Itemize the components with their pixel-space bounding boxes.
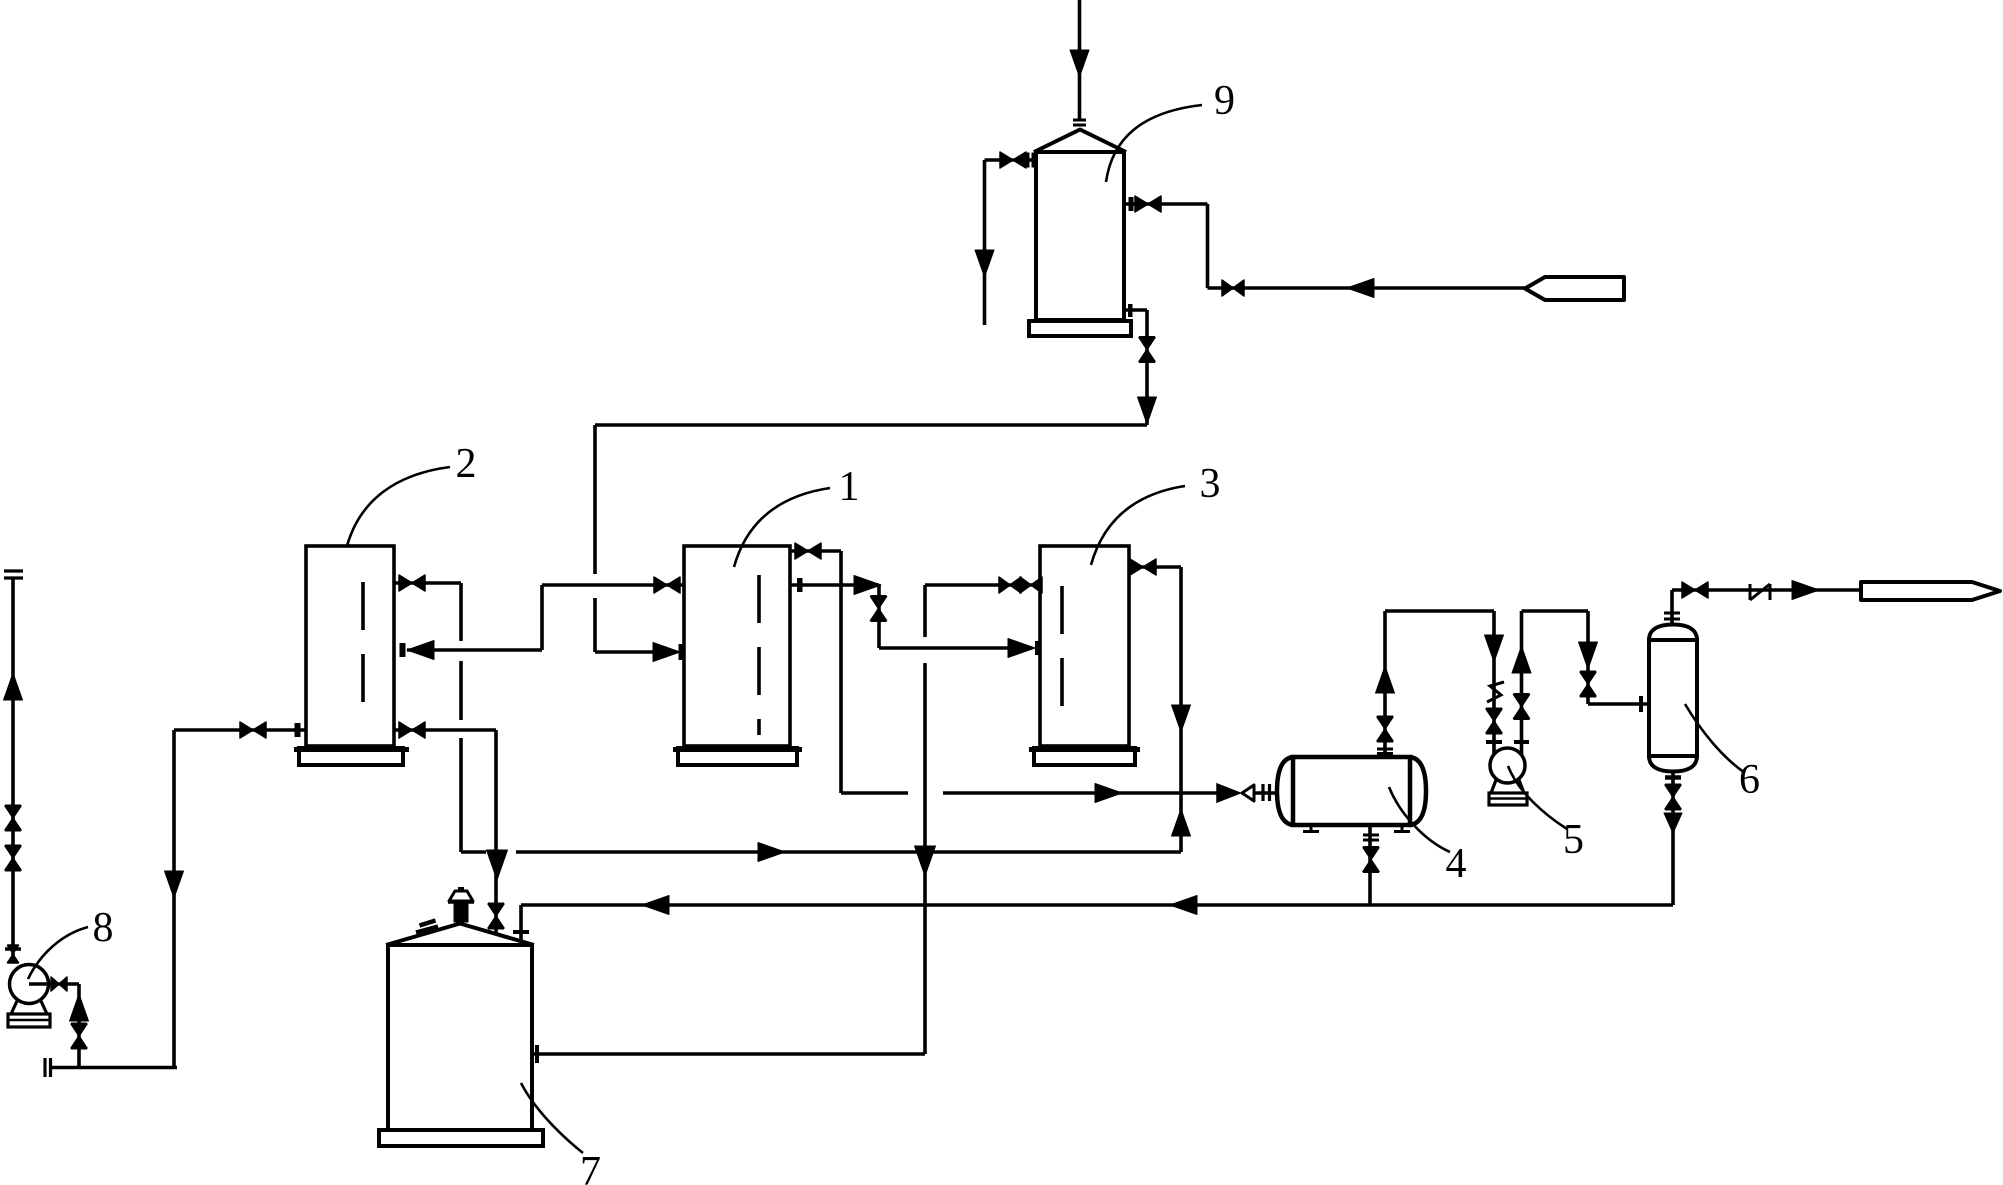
arrow feed lance to vessel 9 <box>1347 279 1374 298</box>
arrow down on tank 3 outlet leg <box>1172 705 1191 732</box>
leader line label 7 <box>521 1083 583 1153</box>
valve vessel 9 left <box>1000 152 1033 168</box>
tank 2 body <box>306 546 394 746</box>
pipe break symbol on product line <box>1750 584 1770 600</box>
wire tank 1 top outlet down-leg <box>790 551 841 793</box>
valve riser lower <box>5 806 21 830</box>
small valve above pump 8 <box>7 945 19 962</box>
leader line label 4 <box>1389 787 1450 852</box>
vessel 4 inlet reducer <box>1217 784 1254 802</box>
valve pump 5 suction <box>1486 709 1502 733</box>
arrow return header near tank 7 <box>642 896 669 915</box>
arrow down into tank 7 top valve <box>487 850 508 880</box>
leader line label 2 <box>347 467 450 546</box>
wire long vertical to tank 7 side nozzle <box>532 585 925 1054</box>
valve vessel 6 top <box>1682 582 1708 598</box>
vessel 9 base plate <box>1029 321 1131 336</box>
leader line label 9 <box>1106 105 1202 182</box>
valve riser upper <box>5 846 21 870</box>
wire vessel 9 left vent line <box>985 160 1037 325</box>
valve tank 2 left <box>240 722 301 738</box>
leader line label 3 <box>1091 486 1185 565</box>
wire vessel 4 feed header <box>841 791 1277 795</box>
leader line label 1 <box>734 488 830 567</box>
arrow into tank 1 middle <box>653 643 685 662</box>
svg-text:8: 8 <box>93 905 114 951</box>
vessel 4 feet <box>1303 825 1410 832</box>
vessel 4 body <box>1277 757 1426 825</box>
pipe end stub bottom left <box>45 1058 51 1077</box>
tank 1 base plate <box>673 748 802 765</box>
wire tank 3 top outlet down-leg <box>1129 567 1181 852</box>
wire vessel 4 bottom drain <box>1368 825 1372 905</box>
product lance <box>1861 582 2000 600</box>
pump 8 suction tick <box>5 947 21 951</box>
pump 5 discharge flange <box>1514 740 1529 744</box>
arrow to product lance <box>1792 581 1819 600</box>
valve pump 8 suction leg <box>71 1024 87 1048</box>
valve vessel 6 bottom <box>1665 785 1681 809</box>
vessel 6 bottom flange <box>1665 775 1681 780</box>
vessel 4 top flange <box>1377 749 1393 754</box>
tank 7 base plate <box>379 1130 543 1146</box>
nozzle tick tank 1 right <box>797 578 803 592</box>
wire tank 2 lower outlet to tank 7 valve <box>394 730 496 934</box>
valve tank 2 upper right <box>399 575 425 591</box>
arrow on vessel 4 feed header <box>1095 784 1122 803</box>
valve tank 7 top <box>488 904 504 928</box>
wire pump 5 discharge to vessel 6 <box>1522 611 1650 755</box>
pipe break squiggle on pump 5 suction <box>1487 682 1504 702</box>
valve tank 2 lower right <box>399 722 425 738</box>
tank 7 return inlet flange <box>513 930 529 934</box>
wire tank 1 right outlet to tank 3 <box>790 585 1010 648</box>
tank 3 body <box>1040 546 1129 746</box>
valve tank 3 top right <box>1130 559 1156 575</box>
pump 5 <box>1489 748 1527 805</box>
valve vessel 9 right <box>1129 196 1162 212</box>
arrow down on tank 7 side feed <box>915 846 936 876</box>
wire vessel 6 top outlet to product lance <box>1672 590 1861 626</box>
wire return header to tank 7 <box>521 905 1673 940</box>
arrow vessel 9 vent down <box>975 250 994 277</box>
wire vessel 9 right outlet to feed lance <box>1124 204 1525 288</box>
vessel 4 bottom flange <box>1363 835 1379 840</box>
wire vessel 6 bottom to return header <box>1671 771 1675 905</box>
valve on feed lance line <box>1222 280 1244 296</box>
vessel 6 inlet flange <box>1639 696 1643 712</box>
tank 7 body <box>386 924 534 1131</box>
arrow into tank 3 middle <box>1008 639 1041 658</box>
valve below tank 1 outlet <box>871 597 887 621</box>
arrow down tank 2 drain leg <box>165 871 184 898</box>
svg-text:6: 6 <box>1739 757 1760 803</box>
feed lance <box>1525 277 1624 300</box>
arrow up on transfer leg <box>1172 809 1191 836</box>
arrow pump 5 suction down <box>1485 635 1504 662</box>
wire pump 8 riser <box>11 578 15 963</box>
valve pump 8 discharge <box>51 977 67 991</box>
arrow down before vessel 6 <box>1579 642 1598 669</box>
wire tank 2 left drain line <box>174 730 306 1068</box>
svg-text:4: 4 <box>1446 841 1467 887</box>
valve vessel 9 drain <box>1139 338 1155 362</box>
valve tank 1 top right <box>795 543 821 559</box>
valve pair tank 3 left <box>999 577 1042 593</box>
wire vessel 9 bottom drain <box>1124 310 1147 425</box>
wire transfer line to junction <box>461 850 1181 854</box>
arrow pump 5 discharge up <box>1512 646 1531 673</box>
svg-text:9: 9 <box>1214 78 1235 124</box>
valve pump 5 discharge <box>1514 695 1530 719</box>
svg-text:5: 5 <box>1563 817 1584 863</box>
vessel 6 top flange <box>1664 613 1680 619</box>
arrow into tank 2 middle <box>400 641 435 660</box>
tank 3 dip tube <box>1060 586 1064 721</box>
tank 7 side nozzle flange <box>535 1045 539 1063</box>
pipe end stub top left <box>4 571 23 578</box>
vessel 9 body <box>1034 130 1126 321</box>
valve tank 1 left <box>654 577 680 593</box>
valve vessel 4 top <box>1377 717 1393 741</box>
wire vessel 4 top line to pump 5 <box>1385 611 1494 757</box>
nozzle tick vessel 9 drain <box>1128 304 1133 317</box>
pump 5 suction flange <box>1486 740 1502 744</box>
tank 3 base plate <box>1029 748 1140 765</box>
pump 8 <box>8 965 50 1028</box>
svg-text:3: 3 <box>1200 461 1221 507</box>
arrow vessel 9 drain down <box>1138 397 1157 424</box>
tank 1 dip tube <box>757 575 761 735</box>
wire tank 1 feed from tank 2 loop <box>407 585 684 650</box>
tank 7 roof nozzle stub <box>416 921 438 933</box>
wire tank 3 feed header <box>925 583 1040 587</box>
svg-text:7: 7 <box>580 1149 601 1185</box>
valve before vessel 6 <box>1580 672 1596 696</box>
leader line label 6 <box>1685 704 1745 773</box>
tank 2 base plate <box>294 748 409 765</box>
wire tank 2 upper outlet down-leg <box>394 583 461 852</box>
tank 7 relief valve <box>448 889 474 923</box>
tank 2 dip tube <box>361 582 365 723</box>
arrow feed into vessel 9 <box>1070 50 1089 77</box>
arrow on transfer line <box>758 843 785 862</box>
wire drain header to tank 1 <box>595 425 1147 652</box>
tank 1 body <box>684 546 790 746</box>
vessel 6 body <box>1649 625 1697 772</box>
arrow up pump 8 riser <box>4 673 23 700</box>
vessel 9 top flange <box>1073 120 1086 125</box>
svg-text:1: 1 <box>839 464 860 510</box>
vessel 4 inlet flange <box>1263 784 1270 801</box>
wire pump 8 discharge loop <box>29 984 177 1068</box>
svg-text:2: 2 <box>456 441 477 487</box>
arrow vessel 4 top up <box>1376 666 1395 693</box>
leader line label 8 <box>28 927 88 979</box>
arrow vessel 6 bottom down <box>1664 813 1682 833</box>
arrow return header right <box>1170 896 1197 915</box>
wire feed line into vessel 9 top <box>1078 0 1082 120</box>
arrow up pump 8 suction leg <box>70 994 89 1021</box>
leader line label 5 <box>1508 766 1567 829</box>
arrow tank 1 outlet right <box>854 576 881 595</box>
valve vessel 4 bottom <box>1363 848 1379 872</box>
